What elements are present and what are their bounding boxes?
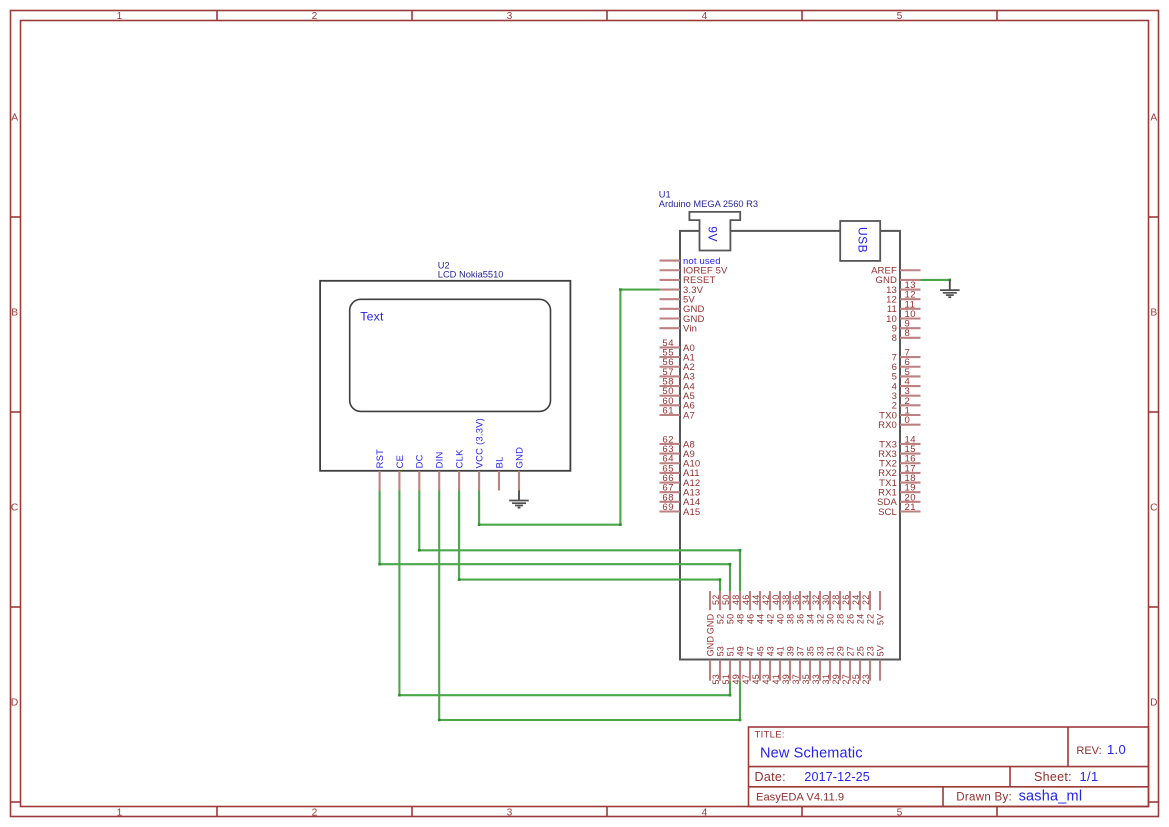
svg-text:0: 0 <box>905 415 911 426</box>
svg-text:A15: A15 <box>683 507 700 518</box>
svg-text:25: 25 <box>855 646 865 656</box>
svg-text:46: 46 <box>741 595 751 605</box>
svg-text:3: 3 <box>507 807 513 818</box>
svg-text:32: 32 <box>815 614 825 624</box>
svg-text:sasha_ml: sasha_ml <box>1019 788 1083 804</box>
LCD pin GND <box>513 447 524 491</box>
svg-text:53: 53 <box>715 646 725 656</box>
svg-text:DIN: DIN <box>434 451 445 468</box>
svg-text:34: 34 <box>805 614 815 624</box>
svg-text:B: B <box>11 308 18 319</box>
svg-text:30: 30 <box>825 614 835 624</box>
U1 left pin A2 <box>660 357 695 373</box>
ground right <box>940 280 960 297</box>
U1 bottom pin pair 26/27 <box>841 591 855 685</box>
svg-text:4: 4 <box>702 807 708 818</box>
U1 right pin 11 <box>887 299 921 315</box>
U1 right pin 2 <box>892 396 921 412</box>
wire CLK to pin 52 <box>459 491 720 592</box>
svg-text:43: 43 <box>765 646 775 656</box>
svg-text:1: 1 <box>117 11 123 22</box>
svg-text:25: 25 <box>851 674 861 684</box>
U1 right pin TX3 <box>879 434 920 450</box>
U1 right pin 10 <box>886 309 920 325</box>
svg-text:9V: 9V <box>705 226 719 242</box>
svg-text:Date:: Date: <box>755 770 786 784</box>
USB connector <box>840 221 880 261</box>
U1 right pin 12 <box>886 290 920 306</box>
svg-text:40: 40 <box>771 595 781 605</box>
svg-text:38: 38 <box>785 614 795 624</box>
svg-text:EasyEDA V4.11.9: EasyEDA V4.11.9 <box>756 792 844 804</box>
svg-text:U1: U1 <box>659 190 671 200</box>
svg-text:69: 69 <box>662 502 674 513</box>
svg-text:8: 8 <box>905 328 911 339</box>
svg-text:27: 27 <box>841 674 851 684</box>
svg-text:35: 35 <box>801 674 811 684</box>
svg-text:A: A <box>1150 113 1157 124</box>
svg-text:47: 47 <box>745 646 755 656</box>
svg-text:52: 52 <box>711 595 721 605</box>
svg-text:45: 45 <box>751 674 761 684</box>
svg-text:41: 41 <box>771 674 781 684</box>
svg-text:50: 50 <box>725 614 735 624</box>
U1 bottom pin pair 48/49 <box>731 591 745 685</box>
U1 bottom pin pair 28/29 <box>831 591 845 685</box>
svg-text:50: 50 <box>721 595 731 605</box>
U1 right pin RX1 <box>878 483 920 499</box>
svg-text:39: 39 <box>781 674 791 684</box>
svg-text:53: 53 <box>711 674 721 684</box>
svg-text:Text: Text <box>360 309 384 323</box>
svg-text:GND: GND <box>705 613 715 634</box>
U1 right pin GND <box>875 275 920 286</box>
U1 left pin A3 <box>660 367 695 383</box>
svg-text:24: 24 <box>855 614 865 624</box>
svg-text:42: 42 <box>765 614 775 624</box>
LCD pin RST <box>374 449 385 491</box>
svg-text:35: 35 <box>805 646 815 656</box>
wire bend dots <box>378 279 951 722</box>
U1 left pin A1 <box>660 348 695 364</box>
svg-text:48: 48 <box>731 595 741 605</box>
svg-text:32: 32 <box>811 595 821 605</box>
U1 left pin Vin <box>660 323 698 334</box>
svg-text:4: 4 <box>702 11 708 22</box>
svg-text:31: 31 <box>821 674 831 684</box>
U1 bottom pin pair 32/33 <box>811 591 825 685</box>
U1 left pin IOREF 5V <box>660 266 729 277</box>
wire DIN to pin 49 <box>439 491 740 721</box>
svg-text:2: 2 <box>312 11 318 22</box>
wire DC to pin 48 <box>419 491 740 592</box>
svg-text:VCC (3.3V): VCC (3.3V) <box>474 418 485 468</box>
svg-text:31: 31 <box>825 646 835 656</box>
9V power connector <box>689 212 740 251</box>
svg-text:23: 23 <box>861 674 871 684</box>
svg-text:39: 39 <box>785 646 795 656</box>
svg-text:LCD Nokia5510: LCD Nokia5510 <box>438 270 504 280</box>
svg-text:52: 52 <box>715 614 725 624</box>
U1 left pin A12 <box>660 473 701 489</box>
U1 left pin A6 <box>660 396 695 412</box>
U1 left pin RESET <box>660 275 716 286</box>
U1 right pin 4 <box>892 376 921 392</box>
wire CE to pin 51 <box>399 491 730 696</box>
U1 right pin RX0 <box>878 415 920 431</box>
wire VCC to 3.3V <box>479 290 659 525</box>
U1 bottom pin pair 22/23 <box>861 591 875 685</box>
svg-text:38: 38 <box>781 595 791 605</box>
LCD pin VCC (3.3V) <box>474 418 485 491</box>
U1 right pin TX1 <box>879 473 920 489</box>
svg-text:DC: DC <box>414 454 425 468</box>
svg-text:3: 3 <box>507 11 513 22</box>
svg-text:1.0: 1.0 <box>1107 742 1126 757</box>
svg-text:47: 47 <box>741 674 751 684</box>
U1 bottom pin pair 24/25 <box>851 591 865 685</box>
svg-text:36: 36 <box>791 595 801 605</box>
svg-text:24: 24 <box>851 595 861 605</box>
U1 bottom pin pair 40/41 <box>771 591 785 685</box>
svg-text:GND: GND <box>513 447 524 469</box>
U1 bottom pin pair 34/35 <box>801 591 815 685</box>
svg-text:A: A <box>11 113 18 124</box>
U1 right pin RX2 <box>878 463 920 479</box>
svg-text:5: 5 <box>897 807 903 818</box>
U1 left pin GND <box>660 304 705 315</box>
svg-text:5V: 5V <box>875 645 885 656</box>
svg-text:43: 43 <box>761 674 771 684</box>
U1 bottom pin pair 44/45 <box>751 591 765 685</box>
U1 bottom pin pair 50/51 <box>721 591 735 685</box>
svg-text:New Schematic: New Schematic <box>760 746 863 762</box>
svg-text:B: B <box>1150 308 1157 319</box>
svg-text:37: 37 <box>791 674 801 684</box>
U1 left pin A15 <box>660 502 701 518</box>
svg-text:29: 29 <box>831 674 841 684</box>
svg-text:CE: CE <box>394 455 405 469</box>
U1 bottom pin pair 46/47 <box>741 591 755 685</box>
svg-text:5V: 5V <box>875 614 885 625</box>
svg-text:5: 5 <box>897 11 903 22</box>
svg-text:GND: GND <box>705 636 715 657</box>
svg-text:51: 51 <box>725 646 735 656</box>
svg-text:USB: USB <box>855 227 869 253</box>
U1 right pin 13 <box>886 280 920 296</box>
U1 left pin A8 <box>660 434 695 450</box>
svg-text:2: 2 <box>312 807 318 818</box>
U1 bottom pin pair 30/31 <box>821 591 835 685</box>
svg-text:Arduino MEGA 2560 R3: Arduino MEGA 2560 R3 <box>659 199 758 209</box>
svg-text:61: 61 <box>662 405 674 416</box>
svg-text:33: 33 <box>815 646 825 656</box>
svg-text:45: 45 <box>755 646 765 656</box>
U1 right pin 3 <box>892 386 921 402</box>
ground LCD <box>509 490 529 507</box>
U1 bottom pin pair GND/GND <box>705 591 715 681</box>
svg-text:33: 33 <box>811 674 821 684</box>
U1 right pin 6 <box>892 357 921 373</box>
U1 bottom pin pair 36/37 <box>791 591 805 685</box>
svg-text:C: C <box>11 503 18 514</box>
U1 bottom pin pair 38/39 <box>781 591 795 685</box>
svg-text:34: 34 <box>801 595 811 605</box>
U1 left pin A0 <box>660 338 695 354</box>
svg-text:27: 27 <box>845 646 855 656</box>
svg-text:22: 22 <box>865 614 875 624</box>
svg-text:Sheet:: Sheet: <box>1034 770 1072 784</box>
U1 right pin RX3 <box>878 444 920 460</box>
U1 right pin 9 <box>892 319 921 335</box>
svg-text:37: 37 <box>795 646 805 656</box>
U1 left pin A9 <box>660 444 695 460</box>
U1 right pin 8 <box>892 328 921 344</box>
svg-text:26: 26 <box>845 614 855 624</box>
U1 bottom pin pair 42/43 <box>761 591 775 685</box>
svg-text:44: 44 <box>755 614 765 624</box>
svg-text:44: 44 <box>751 595 761 605</box>
Arduino U1 body <box>680 231 900 660</box>
svg-text:2017-12-25: 2017-12-25 <box>804 770 869 784</box>
wire RST to pin 50 <box>380 491 730 592</box>
LCD U2 body <box>320 281 570 471</box>
svg-text:1/1: 1/1 <box>1080 769 1099 784</box>
U1 left pin A14 <box>660 492 701 508</box>
svg-text:REV:: REV: <box>1076 745 1101 757</box>
svg-text:41: 41 <box>775 646 785 656</box>
svg-text:46: 46 <box>745 614 755 624</box>
U1 right pin 7 <box>892 348 921 364</box>
U1 right pin TX2 <box>879 454 920 470</box>
LCD pin CLK <box>454 449 465 491</box>
U1 bottom pin pair 5V/5V <box>875 591 885 681</box>
svg-text:Vin: Vin <box>683 323 697 334</box>
svg-text:23: 23 <box>865 646 875 656</box>
svg-text:22: 22 <box>861 595 871 605</box>
svg-text:RST: RST <box>374 449 385 469</box>
U1 right pin SDA <box>877 492 920 508</box>
U1 left pin GND <box>660 314 705 325</box>
svg-text:28: 28 <box>831 595 841 605</box>
U1 left pin A11 <box>660 463 700 479</box>
U1 right pin SCL <box>878 502 920 518</box>
svg-text:A7: A7 <box>683 410 695 421</box>
svg-text:BL: BL <box>493 456 504 468</box>
U1 left pin A7 <box>660 405 695 421</box>
svg-text:36: 36 <box>795 614 805 624</box>
svg-text:21: 21 <box>905 502 917 513</box>
U1 right pin TX0 <box>879 405 920 421</box>
svg-text:D: D <box>1150 698 1157 709</box>
LCD pin CE <box>394 455 405 491</box>
svg-text:29: 29 <box>835 646 845 656</box>
LCD screen rounded rect <box>350 299 551 411</box>
U1 left pin A5 <box>660 386 695 402</box>
LCD pin DIN <box>434 451 445 490</box>
U1 bottom pin pair 52/53 <box>711 591 725 685</box>
U1 left pin A13 <box>660 483 701 499</box>
U1 left pin A10 <box>660 454 701 470</box>
svg-text:48: 48 <box>735 614 745 624</box>
svg-text:49: 49 <box>735 646 745 656</box>
svg-text:SCL: SCL <box>878 507 897 518</box>
svg-text:D: D <box>11 698 18 709</box>
svg-text:Drawn By:: Drawn By: <box>956 792 1012 804</box>
svg-text:1: 1 <box>117 807 123 818</box>
svg-text:26: 26 <box>841 595 851 605</box>
svg-text:CLK: CLK <box>454 449 465 468</box>
U1 right pin 5 <box>892 367 921 383</box>
svg-text:RX0: RX0 <box>878 420 897 431</box>
U1 left pin A4 <box>660 376 695 392</box>
svg-text:8: 8 <box>892 333 897 344</box>
LCD pin BL <box>493 456 504 490</box>
svg-text:C: C <box>1150 503 1157 514</box>
svg-text:28: 28 <box>835 614 845 624</box>
svg-text:42: 42 <box>761 595 771 605</box>
svg-text:TITLE:: TITLE: <box>755 729 785 740</box>
U1 left pin 5V <box>660 295 696 306</box>
wire AREF GND to ground <box>921 279 950 281</box>
svg-text:40: 40 <box>775 614 785 624</box>
svg-text:30: 30 <box>821 595 831 605</box>
title block <box>749 727 1149 807</box>
U1 left pin not used <box>660 256 721 267</box>
U1 right pin AREF <box>871 266 920 277</box>
LCD pin DC <box>414 454 425 490</box>
U1 left pin 3.3V <box>660 285 704 296</box>
